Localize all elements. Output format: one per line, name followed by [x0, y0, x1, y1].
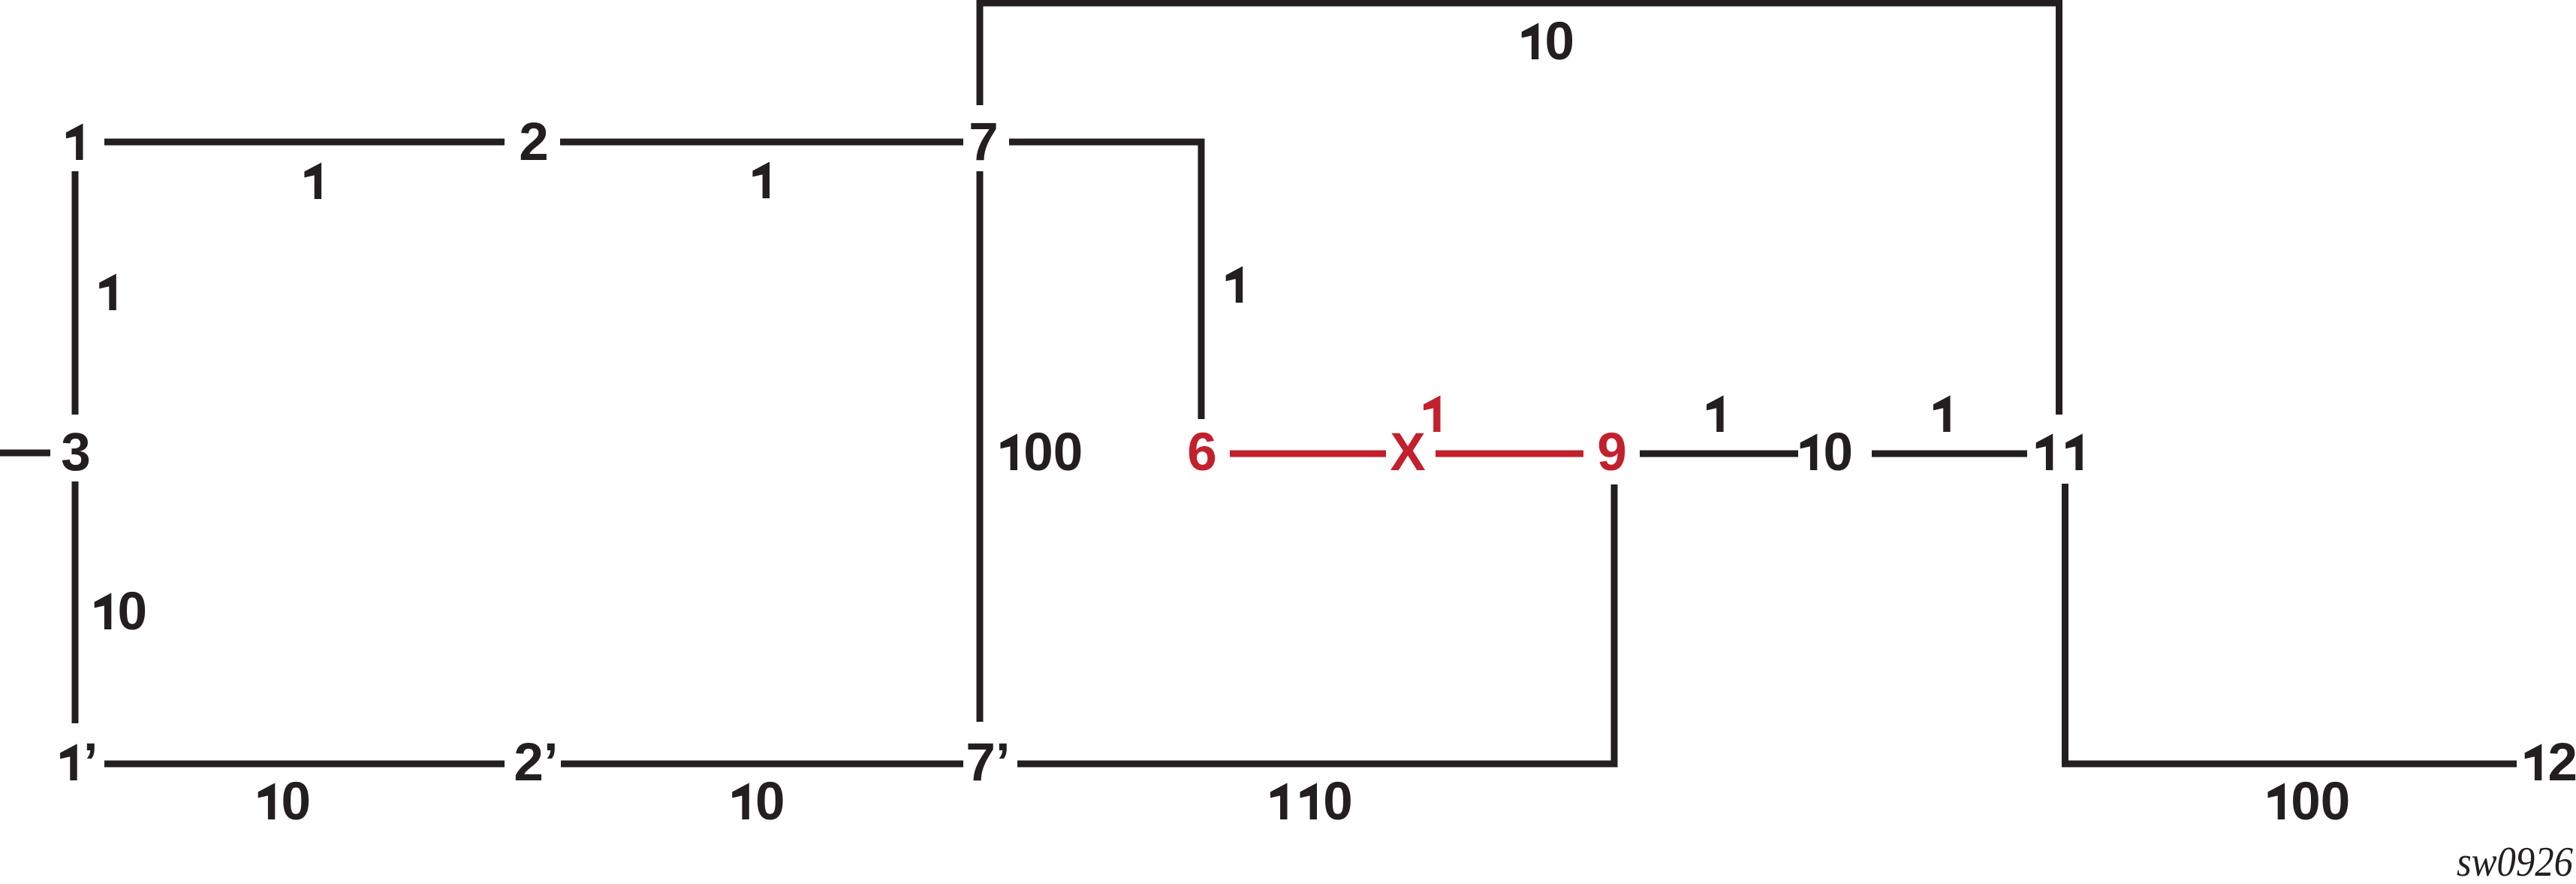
- label 1 on wire 2-7: [752, 161, 770, 198]
- label 10 on wire 3-1': [95, 593, 112, 629]
- label 1 on wire 1-2: [304, 162, 321, 199]
- wire 9 down vertical: [1611, 484, 1618, 768]
- label 1 on wire 1-3: [99, 273, 116, 310]
- wire 10-11: [1872, 451, 2027, 457]
- svg-text:0: 0: [281, 772, 311, 831]
- svg-text:X: X: [1390, 423, 1425, 482]
- label 110: [1270, 783, 1288, 819]
- svg-text:0: 0: [1023, 423, 1053, 482]
- wire red 6-X: [1230, 451, 1386, 457]
- svg-text:0: 0: [1053, 423, 1083, 482]
- svg-text:3: 3: [61, 423, 91, 482]
- wire from 7 right to corner: [1009, 139, 1205, 146]
- label 1 on wire 7-6: [1226, 266, 1243, 303]
- node 11: [2036, 433, 2053, 470]
- svg-text:2: 2: [519, 113, 549, 172]
- svg-text:9: 9: [1597, 423, 1627, 482]
- svg-text:’: ’: [83, 733, 98, 792]
- svg-text:0: 0: [2291, 772, 2321, 831]
- label 10 on wire 1'-2': [258, 783, 276, 819]
- wire 1-3 vertical: [72, 171, 79, 415]
- label 100 on wire 7-7': [1001, 433, 1018, 470]
- svg-text:0: 0: [1823, 423, 1853, 482]
- wire vertical from top loop down to node 11: [2056, 0, 2062, 415]
- svg-text:7’: 7’: [966, 733, 1010, 792]
- svg-text:2’: 2’: [514, 733, 558, 792]
- label 10 on wire 2'-7': [732, 783, 749, 819]
- wire below 11 right to node 12, cost 100: [2062, 761, 2517, 768]
- svg-text:0: 0: [2321, 772, 2351, 831]
- label red 1 superscript: [1424, 395, 1441, 432]
- svg-text:0: 0: [1323, 772, 1353, 831]
- svg-text:0: 0: [755, 772, 785, 831]
- svg-text:0: 0: [1544, 12, 1574, 71]
- wire corner down to node 6: [1198, 139, 1205, 420]
- label 10 on top loop: [1522, 23, 1539, 59]
- node 12: [2525, 744, 2542, 780]
- wire vertical from top loop down to node 7: [977, 0, 984, 105]
- wire 1'-2': [104, 761, 505, 768]
- svg-text:7: 7: [969, 113, 999, 172]
- wire stub left of 3: [0, 450, 50, 457]
- svg-text:sw0926: sw0926: [2457, 839, 2573, 884]
- svg-text:0: 0: [117, 582, 147, 641]
- wire 7' right to below 9, cost 110: [1017, 761, 1618, 768]
- wire red X-9: [1436, 451, 1583, 457]
- wire 2'-7': [561, 761, 963, 768]
- label 1 on wire 9-10: [1707, 395, 1724, 432]
- svg-text:2: 2: [2547, 733, 2576, 792]
- wire 11 down vertical: [2062, 484, 2068, 768]
- node 10: [1800, 433, 1818, 470]
- wire 3-1' vertical: [72, 481, 79, 723]
- wire 7-7' vertical, cost 100: [977, 171, 984, 722]
- label 1 on wire 10-11: [1933, 395, 1951, 432]
- svg-text:6: 6: [1187, 423, 1217, 482]
- node 1: [66, 123, 83, 160]
- label 100 bottom right: [2268, 783, 2285, 819]
- node 1': [60, 744, 77, 780]
- wire 1-2: [104, 139, 505, 146]
- wire top loop horizontal 7 to above 11, cost 10: [977, 0, 2063, 7]
- wire 2-7: [560, 139, 963, 146]
- wire 9-10: [1640, 451, 1798, 457]
